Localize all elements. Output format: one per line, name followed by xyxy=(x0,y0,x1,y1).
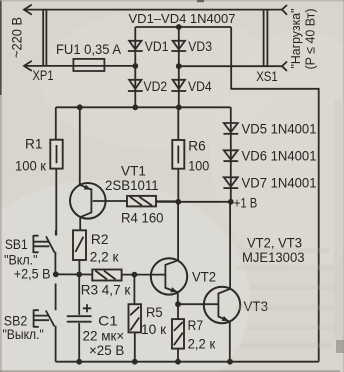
label VT3 xyxy=(244,298,269,314)
pushbutton SB2 xyxy=(34,284,56,362)
label VD2 xyxy=(144,78,168,94)
label SB1 xyxy=(5,236,28,252)
node junction +1V VD7 VT3 collector xyxy=(228,199,234,205)
node junction R6 R4 VT2 collector xyxy=(175,199,181,205)
node junction R7 bottom xyxy=(175,359,181,365)
label VD4 xyxy=(188,78,212,94)
wire bridge column 2 to XS1 xyxy=(179,65,282,67)
label P<=40W rotated xyxy=(303,9,318,70)
node junction VT3 emitter bottom xyxy=(227,359,233,365)
label R2 xyxy=(91,231,109,247)
node junction column 2 to load xyxy=(176,63,182,69)
wire +2,5V line xyxy=(56,273,93,275)
node junction bridge top column 2 xyxy=(176,24,182,30)
label SB2 xyxy=(4,312,28,328)
label 2,2 k R2 xyxy=(90,249,120,265)
connector XS1 boundary double line xyxy=(264,10,268,67)
label VT2, VT3 xyxy=(247,235,302,251)
label +1 V xyxy=(234,194,257,210)
plug XP1 bottom pin arrow xyxy=(24,61,32,71)
node junction bridge column 1 on plus rail xyxy=(132,104,138,110)
label 10 k xyxy=(141,321,167,337)
pushbutton SB1 xyxy=(33,230,55,274)
diode VD3 xyxy=(171,41,186,51)
resistor R1 xyxy=(50,107,62,235)
wire plus rail xyxy=(56,106,231,108)
label R7 xyxy=(188,317,204,333)
label load Nagruzka rotated xyxy=(288,8,303,68)
label VD1-VD4 1N4007 xyxy=(129,11,236,26)
node junction R3 R5 VT2 base xyxy=(132,272,138,278)
label XS1 xyxy=(256,68,278,84)
resistor R2 xyxy=(73,230,86,274)
node junction C1 bottom xyxy=(76,359,82,365)
wire top mains rail from XP1 to XS1 xyxy=(24,9,282,11)
resistor R7 xyxy=(172,304,184,362)
scan artifacts ghost text bleed xyxy=(236,100,342,348)
label x25 V xyxy=(89,342,124,358)
wire minus rail right side xyxy=(231,27,319,362)
wire bottom rail xyxy=(56,361,319,363)
label Vykl xyxy=(3,326,44,342)
label 100 k xyxy=(15,158,47,174)
label VD1 xyxy=(145,38,169,54)
transistor VT2 xyxy=(151,202,187,304)
label 2SB1011 xyxy=(105,177,159,193)
node junction bridge column 2 on plus rail xyxy=(176,104,182,110)
fuse FU1 xyxy=(73,59,135,71)
diode VD7 xyxy=(223,177,238,188)
wire VT2 emitter to VT3 base xyxy=(178,303,218,305)
resistor R6 xyxy=(172,107,184,202)
diode VD2 xyxy=(128,80,143,91)
node junction VT2 emitter R5 R7 VT3 base xyxy=(175,301,181,307)
label XP1 xyxy=(33,67,54,83)
label MJE13003 xyxy=(242,249,305,265)
node junction SB1 SB2 xyxy=(53,271,59,277)
label VD6 1N4001 xyxy=(242,148,317,164)
wire bridge column 1 xyxy=(134,27,136,107)
wire bridge column 2 xyxy=(178,27,180,107)
label R6 xyxy=(188,138,206,154)
socket XS1 top contact fork xyxy=(282,5,287,15)
capacitor C1 xyxy=(67,274,92,361)
label 2,2 k R7 xyxy=(188,336,216,352)
transistor VT1 xyxy=(70,107,127,230)
wire bridge top (minus) link xyxy=(135,26,231,28)
label R5 xyxy=(146,304,163,320)
label Vkl xyxy=(4,252,37,268)
label +2,5 V xyxy=(14,266,51,282)
label 100 xyxy=(188,158,209,174)
label VT2 xyxy=(192,269,216,285)
diode VD6 xyxy=(223,150,238,161)
label 22 mk xyxy=(83,328,125,344)
plug XP1 top pin arrow xyxy=(24,5,32,15)
diode VD4 xyxy=(171,80,186,91)
wire VD5-VD7 chain xyxy=(230,107,232,202)
node junction R2 C1 xyxy=(76,272,82,278)
wire lower mains lead from XP1 to fuse xyxy=(24,65,73,67)
transistor VT3 xyxy=(204,202,240,362)
connector XP1 boundary double line xyxy=(43,10,46,66)
label R4 160 xyxy=(121,209,164,225)
resistor R3 xyxy=(92,270,165,281)
label FU1 0,35 A xyxy=(56,41,122,57)
diode VD5 xyxy=(223,123,238,134)
resistor R4 xyxy=(127,196,178,207)
label VT1 xyxy=(121,163,146,179)
label R1 xyxy=(25,136,43,152)
node junction VT1 emitter on plus rail xyxy=(77,104,83,110)
node junction fuse to bridge column 1 xyxy=(132,63,138,69)
socket XS1 bottom contact fork xyxy=(282,62,287,72)
label VD3 xyxy=(188,38,212,54)
label R3 4,7 k xyxy=(81,282,131,298)
wire node line R4 to +1V xyxy=(156,201,231,203)
label ~220 V rotated xyxy=(9,17,25,58)
node junction R5 bottom xyxy=(132,359,138,365)
label C1 xyxy=(98,312,118,328)
resistor R5 xyxy=(129,275,142,362)
label VD7 1N4001 xyxy=(242,175,317,191)
diode VD1 xyxy=(128,41,143,51)
label VD5 1N4001 xyxy=(242,121,317,137)
